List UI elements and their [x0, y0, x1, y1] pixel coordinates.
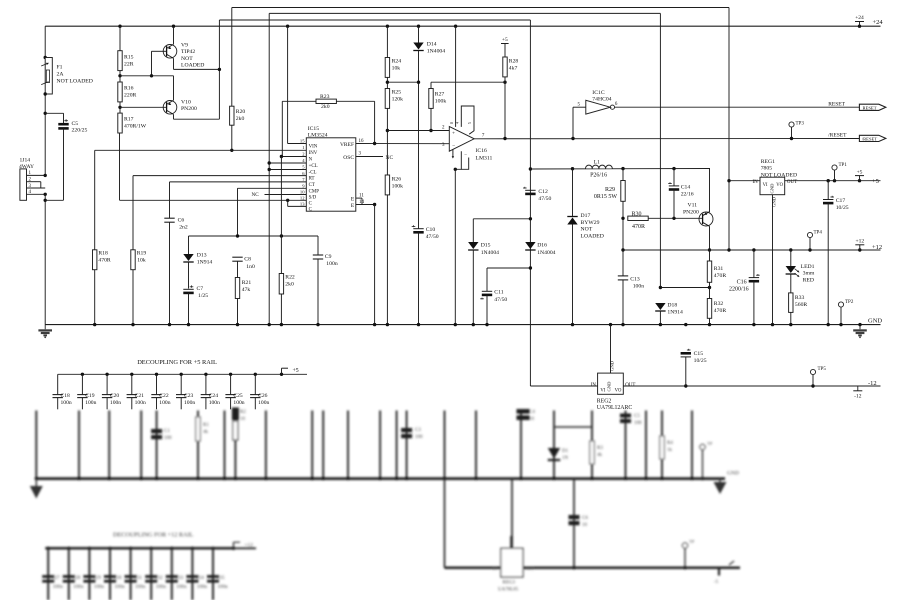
capacitor C31: [129, 547, 132, 550]
svg-text:7805: 7805: [761, 166, 773, 172]
regulator REG2 UA79L12ARC: [598, 373, 624, 394]
svg-text:C26: C26: [258, 393, 268, 399]
svg-text:100n: 100n: [233, 400, 244, 406]
svg-text:IC15: IC15: [308, 126, 320, 132]
svg-text:C34: C34: [195, 575, 204, 581]
svg-text:470R/1W: 470R/1W: [124, 124, 147, 130]
svg-text:VI: VI: [600, 388, 605, 393]
svg-text:+24: +24: [855, 15, 864, 21]
wire pin2: [27, 181, 41, 183]
svg-text:2k0: 2k0: [321, 104, 330, 110]
wire to reg3 box: [511, 479, 513, 549]
wire V10 emitter: [173, 114, 175, 119]
svg-text:47/50: 47/50: [494, 297, 507, 303]
svg-text:100: 100: [634, 421, 642, 426]
resistor blurry 3: [590, 441, 594, 464]
wire switch to D15: [473, 218, 530, 220]
capacitor C19: [81, 373, 84, 376]
svg-text:+5: +5: [293, 368, 299, 374]
wire C5 bottom: [63, 128, 65, 200]
svg-text:47/50: 47/50: [426, 234, 439, 240]
testpoint TP5: [810, 369, 815, 374]
svg-text:NC: NC: [252, 192, 260, 198]
resistor R16: [118, 82, 122, 102]
wire C17 bottom: [827, 203, 829, 325]
svg-text:-5: -5: [714, 580, 719, 585]
svg-text:100: 100: [415, 435, 423, 440]
svg-text:1N: 1N: [562, 456, 569, 461]
svg-text:4WAY: 4WAY: [19, 164, 34, 170]
svg-text:C8: C8: [244, 256, 251, 262]
wire CT: [170, 181, 307, 183]
svg-text:C32: C32: [154, 575, 163, 581]
wire inverter input: [572, 107, 574, 138]
svg-text:/RESET: /RESET: [862, 137, 878, 142]
svg-text:100n: 100n: [53, 584, 64, 590]
ground symbol right: [859, 325, 861, 330]
svg-text:+CL: +CL: [309, 164, 318, 169]
wire D15 bottom: [472, 250, 474, 325]
svg-text:V9: V9: [181, 43, 188, 49]
capacitor C16: [753, 250, 755, 278]
wire REG1 gnd: [772, 195, 774, 325]
wire F1 bottom: [44, 94, 46, 175]
diode D17 BYW29: [572, 169, 574, 217]
wire R16-R17: [119, 102, 121, 113]
resistor R28: [503, 57, 507, 77]
svg-text:100n: 100n: [94, 584, 105, 590]
power +24 symbol: [855, 21, 864, 23]
capacitor C20: [105, 373, 108, 376]
wire D14 bottom: [418, 51, 420, 229]
wire R24-R25: [386, 77, 388, 88]
wire +24 rail: [45, 25, 880, 27]
svg-text:+5: +5: [857, 169, 863, 175]
svg-text:C7: C7: [197, 286, 204, 292]
wire R23 right: [336, 100, 374, 102]
svg-text:C12: C12: [538, 189, 548, 195]
svg-text:15: 15: [300, 139, 305, 144]
svg-text:100n: 100n: [135, 584, 146, 590]
resistor R29: [622, 169, 624, 181]
svg-text:470R: 470R: [98, 258, 111, 264]
svg-text:C17: C17: [836, 198, 846, 204]
svg-text:OUT: OUT: [525, 566, 534, 571]
resistor R25: [385, 89, 389, 109]
wire R26 bottom: [386, 195, 388, 325]
port RESET flag: [859, 104, 885, 110]
wire R25-R26: [386, 108, 388, 175]
svg-text:OUT: OUT: [625, 383, 635, 388]
svg-text:INV: INV: [309, 151, 318, 156]
svg-text:1J14: 1J14: [20, 158, 31, 164]
capacitor C24: [204, 373, 207, 376]
svg-text:LOADED: LOADED: [581, 233, 604, 239]
svg-text:RT: RT: [309, 177, 315, 182]
svg-text:VREF: VREF: [340, 142, 354, 148]
svg-text:+24: +24: [873, 19, 884, 26]
svg-text:100n: 100n: [61, 400, 72, 406]
svg-text:5: 5: [468, 122, 472, 124]
wire R15R16 junction to bases: [120, 75, 174, 77]
svg-text:N: N: [309, 158, 313, 163]
capacitor C22: [155, 373, 158, 376]
wire C8-R21: [237, 261, 239, 277]
wire bus line2 right drop: [659, 13, 661, 287]
svg-text:100n: 100n: [135, 400, 146, 406]
svg-text:UA78L05: UA78L05: [498, 588, 519, 593]
wire comp node: [189, 235, 319, 237]
svg-text:R32: R32: [714, 301, 724, 307]
svg-text:1N914: 1N914: [667, 310, 683, 316]
capacitor C13: [622, 250, 624, 276]
resistor blurry 4: [660, 436, 664, 459]
svg-text:V11: V11: [688, 203, 698, 209]
power +12 symbol: [855, 244, 864, 246]
wire switch node: [530, 168, 710, 171]
wire V11 emitter: [709, 226, 711, 250]
svg-text:100n: 100n: [176, 584, 187, 590]
svg-text:TP: TP: [689, 539, 695, 544]
svg-text:1k: 1k: [667, 448, 673, 453]
wire RT: [133, 175, 306, 177]
capacitor C18: [57, 374, 59, 394]
diode D13 1N914: [183, 254, 193, 261]
svg-text:C18: C18: [61, 393, 71, 399]
wire R21 bottom: [237, 299, 239, 325]
power +12 decoupling tick: [234, 547, 257, 549]
svg-text:13: 13: [300, 202, 305, 207]
svg-text:P26/16: P26/16: [590, 173, 607, 179]
capacitor C5: [58, 123, 68, 126]
wire blurry bus verticals: [35, 411, 37, 479]
wire INV: [95, 149, 307, 151]
wire C13 bottom: [622, 280, 624, 325]
svg-text:100n: 100n: [115, 584, 126, 590]
svg-text:−: −: [464, 154, 467, 159]
svg-text:F1: F1: [57, 65, 63, 71]
capacitor C29: [88, 547, 91, 550]
capacitor C6: [164, 217, 174, 219]
inductor L1: [586, 165, 613, 168]
fuse F1: [45, 58, 52, 95]
svg-text:R31: R31: [714, 266, 724, 272]
capacitor C35: [211, 547, 214, 550]
svg-text:CMP: CMP: [309, 189, 320, 194]
testpoint TP3: [789, 122, 794, 127]
testpoint TP4: [807, 232, 812, 237]
svg-text:TP3: TP3: [796, 122, 805, 127]
svg-text:10: 10: [582, 523, 588, 528]
resistor R22: [279, 274, 283, 295]
wire R18 bottom: [94, 270, 96, 325]
svg-text:10k: 10k: [392, 66, 401, 72]
svg-text:22/16: 22/16: [681, 192, 694, 198]
ic IC15 LM3524 box: [306, 138, 356, 211]
wire V10 collector drop: [173, 76, 175, 101]
capacitor C8: [232, 256, 242, 258]
svg-text:REG1: REG1: [761, 159, 775, 165]
svg-text:R20: R20: [236, 109, 246, 115]
wire C5 gnd link: [45, 199, 63, 201]
svg-text:4k7: 4k7: [509, 66, 518, 72]
regulator blurry REG3: [501, 548, 523, 577]
svg-text:10/25: 10/25: [694, 358, 707, 364]
wire D14 top: [418, 26, 420, 42]
wire R29 bottom: [622, 201, 624, 250]
wire R32 bottom: [709, 318, 711, 324]
capacitor C25: [229, 373, 232, 376]
capacitor C30: [108, 547, 111, 550]
resistor R21: [235, 278, 239, 299]
svg-text:NOT: NOT: [581, 227, 593, 233]
testpoint TP1: [832, 165, 837, 170]
svg-text:4: 4: [455, 122, 459, 124]
transistor V11: [709, 169, 711, 213]
resistor R27: [430, 82, 432, 88]
svg-text:C25: C25: [233, 393, 243, 399]
svg-text:560R: 560R: [795, 302, 808, 308]
svg-text:2k0: 2k0: [285, 282, 294, 288]
svg-text:R22: R22: [285, 275, 295, 281]
wire C10 bottom: [418, 232, 420, 324]
svg-text:D13: D13: [197, 253, 207, 259]
svg-text:PN200: PN200: [683, 210, 699, 216]
svg-text:R25: R25: [392, 90, 402, 96]
svg-text:12: 12: [300, 196, 305, 201]
svg-text:C24: C24: [209, 393, 219, 399]
capacitor blurry 3: [517, 409, 530, 414]
wire RESET line: [615, 106, 860, 108]
svg-text:10: 10: [529, 417, 535, 422]
wire R18 top: [94, 150, 96, 250]
ic16 bottom pins: [452, 150, 454, 158]
capacitor C15: [681, 352, 691, 355]
svg-text:C10: C10: [426, 227, 436, 233]
svg-text:1N4004: 1N4004: [481, 250, 499, 256]
svg-text:100n: 100n: [159, 400, 170, 406]
ground symbol left: [44, 325, 46, 330]
power +5 decoupling tick: [282, 373, 308, 375]
wire connector down: [44, 194, 46, 324]
resistor R31: [709, 250, 711, 261]
port /RESET flag: [859, 135, 885, 141]
ground arrow right: [719, 479, 721, 483]
resistor R20: [230, 106, 234, 125]
wire LED1-R33: [790, 274, 792, 293]
wire pin2-pin3 tie: [40, 182, 42, 188]
resistor blurry 1: [196, 417, 200, 441]
svg-text:R16: R16: [124, 86, 134, 92]
svg-text:120k: 120k: [392, 97, 404, 103]
svg-text:RESET: RESET: [828, 101, 845, 107]
svg-text:C11: C11: [494, 290, 503, 296]
svg-text:TP2: TP2: [845, 300, 854, 305]
svg-text:/RESET: /RESET: [828, 133, 847, 139]
svg-text:C9: C9: [325, 254, 332, 260]
wire C9 top: [317, 236, 319, 255]
svg-text:C1: C1: [164, 429, 170, 434]
svg-text:OSC: OSC: [343, 155, 354, 161]
svg-text:D15: D15: [481, 243, 491, 249]
svg-text:R3: R3: [597, 446, 603, 451]
svg-text:220R: 220R: [124, 93, 137, 99]
svg-text:R24: R24: [392, 59, 402, 65]
svg-text:VIN: VIN: [309, 145, 318, 150]
svg-text:C14: C14: [681, 185, 691, 191]
svg-text:−: −: [452, 143, 455, 149]
svg-text:TIP42: TIP42: [181, 49, 195, 55]
wire R30 to base: [648, 217, 702, 219]
svg-text:TP: TP: [707, 441, 713, 446]
svg-text:3mm: 3mm: [803, 271, 815, 277]
wire bus line1: [232, 7, 729, 9]
wire R22 bottom: [280, 294, 282, 325]
capacitor C23: [180, 373, 183, 376]
svg-text:10: 10: [240, 417, 246, 422]
wire -12 rail left: [530, 385, 597, 387]
svg-text:R15: R15: [124, 55, 134, 61]
svg-text:100n: 100n: [633, 283, 645, 289]
wire +12 rail: [623, 249, 881, 251]
wire below rail left: [444, 479, 446, 568]
capacitor C26: [254, 373, 257, 376]
svg-text:C5: C5: [72, 121, 79, 127]
wire D18 bottom: [659, 311, 661, 325]
svg-text:2n2: 2n2: [179, 225, 188, 231]
inverter IC1C 74HC04: [586, 100, 611, 114]
diode blurry 1: [548, 448, 560, 459]
svg-text:C: C: [309, 201, 312, 206]
svg-text:PN200: PN200: [181, 106, 197, 112]
svg-text:IC16: IC16: [476, 148, 488, 154]
wire V9 base: [152, 50, 167, 52]
svg-text:220/25: 220/25: [72, 128, 88, 134]
wire C11 link: [487, 267, 530, 269]
svg-text:+12: +12: [855, 239, 864, 245]
svg-text:R26: R26: [392, 177, 402, 183]
svg-text:RESET: RESET: [862, 105, 876, 110]
svg-text:D1: D1: [562, 449, 569, 454]
svg-text:C: C: [309, 208, 312, 213]
svg-text:R23: R23: [320, 94, 330, 100]
svg-text:L1: L1: [594, 160, 600, 166]
svg-text:-CL: -CL: [309, 171, 317, 176]
svg-text:10: 10: [300, 190, 305, 195]
svg-text:1/25: 1/25: [198, 293, 208, 299]
svg-text:4k: 4k: [203, 430, 209, 435]
svg-text:GND: GND: [770, 183, 775, 194]
capacitor blurry 5: [569, 515, 580, 519]
svg-text:VI: VI: [763, 183, 768, 188]
wire V9 emitter: [173, 58, 175, 69]
wire R24 top: [386, 26, 388, 57]
wire C14 bottom: [673, 190, 675, 219]
wire GND rail: [45, 324, 880, 326]
svg-text:470R: 470R: [714, 273, 727, 279]
svg-text:NC: NC: [386, 155, 394, 161]
wire pin1: [27, 174, 46, 176]
svg-text:470R: 470R: [714, 308, 727, 314]
svg-text:1N914: 1N914: [197, 260, 213, 266]
resistor R24: [385, 58, 389, 78]
svg-text:LM3524: LM3524: [308, 133, 328, 139]
svg-text:1n0: 1n0: [246, 264, 255, 270]
wire C15 stem: [685, 357, 687, 386]
svg-text:100k: 100k: [392, 184, 404, 190]
svg-text:R19: R19: [137, 251, 147, 257]
svg-text:47k: 47k: [242, 287, 251, 293]
diode D18 1N914: [655, 303, 665, 310]
resistor R30: [628, 216, 648, 220]
svg-text:R17: R17: [124, 117, 134, 123]
resistor R17: [118, 113, 122, 133]
svg-text:+12: +12: [245, 543, 254, 549]
svg-text:+12: +12: [872, 244, 882, 251]
svg-text:R18: R18: [98, 251, 108, 257]
transistor V9: [163, 45, 177, 59]
resistor R33: [789, 293, 793, 313]
svg-text:R27: R27: [435, 92, 445, 98]
svg-text:REG3: REG3: [503, 581, 516, 586]
testpoint blurry TP6: [682, 543, 687, 548]
resistor R23: [316, 99, 336, 103]
svg-text:10/25: 10/25: [836, 205, 849, 211]
svg-text:C15: C15: [694, 351, 704, 357]
capacitor C7: [190, 286, 194, 288]
resistor R32: [707, 299, 711, 319]
svg-text:D18: D18: [667, 303, 677, 309]
wire +12 decoupling rail: [45, 547, 233, 550]
capacitor C33: [170, 547, 173, 550]
wire bus line3 right drop: [529, 20, 531, 386]
wire R33 bottom: [790, 312, 792, 324]
svg-text:C33: C33: [175, 575, 184, 581]
svg-text:C31: C31: [134, 575, 143, 581]
wire C6 bottom: [169, 222, 171, 324]
svg-text:D17: D17: [581, 213, 591, 219]
svg-text:NOT LOADED: NOT LOADED: [57, 79, 93, 85]
wire cap column below rail: [573, 479, 575, 568]
diode D15 1N4004: [472, 219, 474, 242]
svg-text:R2: R2: [240, 410, 246, 415]
wire F1 top: [44, 26, 46, 57]
svg-text:LED1: LED1: [801, 264, 815, 270]
capacitor C14: [673, 169, 675, 186]
wire +5 rail left: [729, 180, 760, 182]
svg-text:100n: 100n: [156, 584, 167, 590]
wire pin13 jog: [287, 200, 289, 206]
diode D14 1N4004: [413, 43, 423, 50]
svg-text:GND: GND: [607, 381, 612, 392]
wire V10 base: [120, 106, 167, 108]
svg-text:IN: IN: [753, 180, 759, 185]
wire ic16 gnd: [454, 169, 456, 324]
resistor R15: [118, 51, 122, 71]
svg-text:LM311: LM311: [476, 156, 493, 162]
wire blurry link: [554, 426, 592, 428]
svg-text:100n: 100n: [85, 400, 96, 406]
wire R15-R16: [119, 71, 121, 82]
svg-text:0R15 5W: 0R15 5W: [594, 194, 618, 200]
wire R27 bottom: [430, 108, 432, 130]
svg-text:100n: 100n: [197, 584, 208, 590]
svg-text:74HC04: 74HC04: [592, 97, 611, 103]
wire NI: [281, 156, 306, 158]
capacitor C27: [47, 547, 50, 550]
wire pin2 input: [387, 130, 449, 132]
wire C7 bottom: [188, 293, 190, 325]
